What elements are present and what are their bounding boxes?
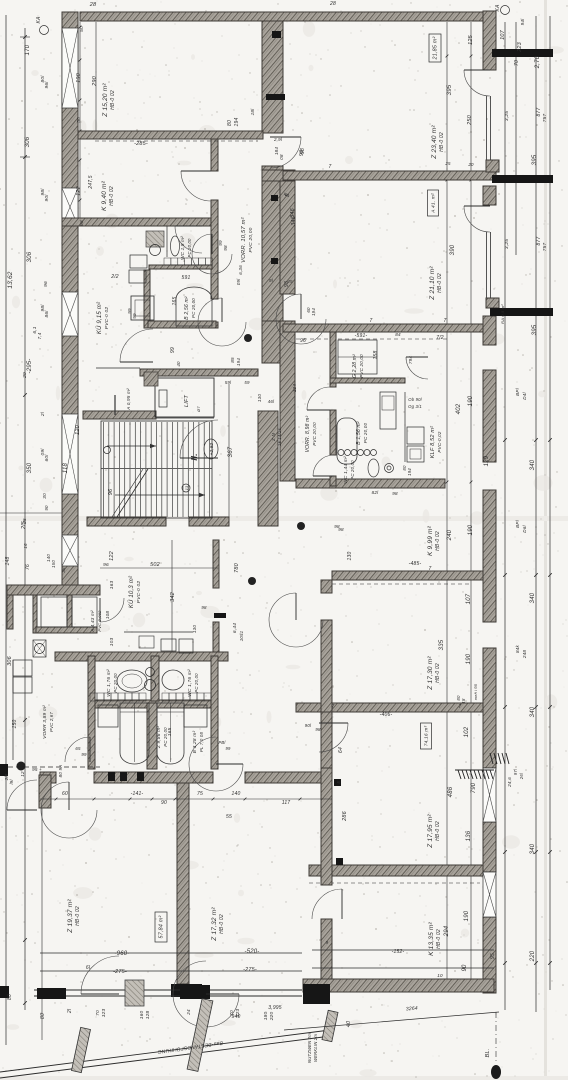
svg-text:340: 340 <box>530 459 536 470</box>
svg-text:165: 165 <box>172 297 178 306</box>
svg-text:190: 190 <box>76 72 82 83</box>
svg-text:395: 395 <box>447 84 453 95</box>
svg-text:306: 306 <box>27 251 33 262</box>
svg-text:70: 70 <box>514 60 520 66</box>
svg-text:PVC-0 02: PVC-0 02 <box>104 307 110 330</box>
svg-text:-591-: -591- <box>355 333 368 339</box>
svg-text:+2,82: +2,82 <box>209 442 214 455</box>
svg-text:K 9,40 m²: K 9,40 m² <box>101 180 108 211</box>
svg-text:99: 99 <box>127 308 132 314</box>
svg-text:HB-0 02: HB-0 02 <box>75 906 81 926</box>
svg-text:95 +: 95 + <box>32 767 42 772</box>
svg-text:123: 123 <box>101 1009 107 1018</box>
svg-text:108: 108 <box>105 611 110 620</box>
svg-text:190: 190 <box>464 910 470 921</box>
svg-text:KLF 8,52 m²: KLF 8,52 m² <box>430 426 436 458</box>
svg-text:PVC-0 02: PVC-0 02 <box>136 581 142 604</box>
svg-text:HB-0 02: HB-0 02 <box>436 929 442 949</box>
svg-text:184: 184 <box>274 147 279 155</box>
svg-text:9: 9 <box>326 940 329 945</box>
svg-text:76: 76 <box>25 564 31 570</box>
svg-text:90l: 90l <box>44 194 50 202</box>
svg-text:486: 486 <box>448 786 454 797</box>
svg-text:13: 13 <box>184 485 189 490</box>
svg-text:163: 163 <box>109 581 115 590</box>
svg-text:194: 194 <box>407 468 412 476</box>
svg-text:Z 19,37 m²: Z 19,37 m² <box>67 899 74 934</box>
svg-text:877: 877 <box>536 237 542 246</box>
svg-text:98l: 98l <box>40 304 46 312</box>
svg-text:PVC 20,00: PVC 20,00 <box>312 422 317 446</box>
svg-text:16: 16 <box>23 543 28 549</box>
svg-text:340: 340 <box>530 706 536 717</box>
svg-text:98: 98 <box>223 245 228 251</box>
svg-text:PVC 20,00: PVC 20,00 <box>248 227 254 252</box>
svg-text:29: 29 <box>22 372 28 379</box>
svg-text:250: 250 <box>467 114 473 126</box>
svg-text:99: 99 <box>81 752 87 757</box>
svg-text:346: 346 <box>290 207 296 218</box>
svg-text:7: 7 <box>370 318 373 324</box>
svg-text:248: 248 <box>522 650 527 660</box>
svg-text:64: 64 <box>338 747 344 753</box>
svg-text:3,25: 3,25 <box>504 239 510 249</box>
svg-text:3,995: 3,995 <box>268 1005 282 1011</box>
svg-text:90: 90 <box>44 505 49 511</box>
svg-text:D6l: D6l <box>522 524 527 532</box>
svg-text:WC 1,5 m²: WC 1,5 m² <box>180 236 185 260</box>
svg-text:84: 84 <box>395 332 401 337</box>
svg-text:402: 402 <box>456 403 462 414</box>
svg-text:PC 20,00: PC 20,00 <box>113 673 118 693</box>
svg-text:55: 55 <box>226 814 232 820</box>
svg-text:-275-: -275- <box>243 967 257 973</box>
svg-text:Z 21,10 m²: Z 21,10 m² <box>429 266 436 301</box>
svg-text:130: 130 <box>257 394 262 403</box>
svg-text:2l5: 2l5 <box>21 520 27 530</box>
svg-text:790: 790 <box>471 782 477 793</box>
svg-text:294: 294 <box>444 925 450 937</box>
svg-text:220: 220 <box>530 950 536 962</box>
svg-text:KA: KA <box>495 4 501 12</box>
svg-text:82l: 82l <box>372 490 380 495</box>
svg-text:85: 85 <box>230 357 235 363</box>
svg-text:3264: 3264 <box>406 1005 418 1012</box>
svg-text:10: 10 <box>437 973 443 978</box>
svg-text:7/2: 7/2 <box>436 335 444 341</box>
svg-text:18: 18 <box>461 698 466 704</box>
svg-text:125: 125 <box>468 34 474 45</box>
svg-text:158: 158 <box>373 351 379 360</box>
svg-text:2,9l: 2,9l <box>273 137 283 142</box>
svg-text:340: 340 <box>530 592 536 603</box>
svg-text:28: 28 <box>329 1 336 7</box>
svg-text:794: 794 <box>408 356 413 365</box>
svg-text:90: 90 <box>161 800 167 806</box>
svg-text:KÜ 10,3 m²: KÜ 10,3 m² <box>128 575 135 608</box>
svg-text:220: 220 <box>269 1012 275 1022</box>
svg-text:Z 17,32 m²: Z 17,32 m² <box>211 907 218 942</box>
svg-text:190: 190 <box>466 653 472 664</box>
svg-text:-275-: -275- <box>113 969 127 975</box>
svg-text:140: 140 <box>232 791 241 797</box>
svg-text:502: 502 <box>150 562 160 568</box>
svg-text:PC 20,00: PC 20,00 <box>194 673 199 693</box>
svg-text:2,70: 2,70 <box>535 55 541 69</box>
svg-text:6,36: 6,36 <box>238 265 243 275</box>
svg-text:-520-: -520- <box>244 949 259 955</box>
svg-text:80: 80 <box>7 994 13 1000</box>
svg-text:290: 290 <box>92 75 98 87</box>
svg-text:A 41. m²: A 41. m² <box>431 193 437 214</box>
svg-text:KA: KA <box>36 16 42 24</box>
svg-text:80: 80 <box>227 120 233 126</box>
svg-text:2l: 2l <box>40 411 46 417</box>
svg-text:99: 99 <box>170 347 176 353</box>
svg-text:6,1: 6,1 <box>32 326 38 333</box>
svg-text:96: 96 <box>300 338 306 344</box>
svg-text:180: 180 <box>263 1012 269 1021</box>
svg-text:96l: 96l <box>44 81 50 89</box>
svg-text:6l: 6l <box>86 965 91 971</box>
svg-text:46l: 46l <box>268 399 275 404</box>
svg-text:130: 130 <box>347 552 353 561</box>
svg-text:247,5: 247,5 <box>88 175 94 190</box>
svg-text:PBl: PBl <box>218 740 226 745</box>
svg-text:B 2,56 m²: B 2,56 m² <box>184 296 190 320</box>
svg-text:08: 08 <box>279 154 284 160</box>
svg-text:13,62: 13,62 <box>7 271 14 288</box>
svg-text:RA 0,5 m²: RA 0,5 m² <box>500 304 505 324</box>
svg-text:165: 165 <box>167 728 173 737</box>
svg-text:74,16 m³: 74,16 m³ <box>424 726 430 747</box>
svg-text:118: 118 <box>63 462 69 473</box>
svg-text:K 13,35 m²: K 13,35 m² <box>428 921 435 955</box>
svg-text:50: 50 <box>76 117 82 123</box>
svg-text:99: 99 <box>132 313 137 319</box>
svg-text:PVC-0,02: PVC-0,02 <box>437 431 442 452</box>
svg-text:80l: 80l <box>40 75 46 83</box>
svg-text:24,6: 24,6 <box>507 777 512 788</box>
svg-text:342: 342 <box>170 592 176 602</box>
svg-text:2/2: 2/2 <box>110 274 119 280</box>
svg-text:306: 306 <box>25 136 31 147</box>
svg-text:WC 1,76 m²: WC 1,76 m² <box>187 669 193 697</box>
svg-text:Og 3/1: Og 3/1 <box>408 404 422 409</box>
svg-text:50: 50 <box>79 26 85 32</box>
svg-text:340: 340 <box>530 843 536 854</box>
svg-text:7: 7 <box>329 164 332 170</box>
svg-text:l9l: l9l <box>9 779 14 785</box>
svg-text:VORR 3,89 m²: VORR 3,89 m² <box>42 705 48 739</box>
svg-text:59l: 59l <box>225 380 232 385</box>
svg-text:WC 1,76 m²: WC 1,76 m² <box>106 669 112 697</box>
svg-text:170: 170 <box>25 44 31 55</box>
svg-text:HB-0 02: HB-0 02 <box>219 914 225 934</box>
svg-text:12: 12 <box>20 771 25 777</box>
svg-text:BPl: BPl <box>515 519 520 528</box>
svg-text:190: 190 <box>468 524 474 535</box>
svg-text:6,44: 6,44 <box>232 623 238 633</box>
svg-text:98: 98 <box>392 491 398 496</box>
svg-text:18l: 18l <box>250 108 255 116</box>
svg-text:94l: 94l <box>520 18 525 26</box>
svg-text:395: 395 <box>532 324 538 335</box>
svg-text:HB-0 02: HB-0 02 <box>109 186 115 206</box>
svg-text:350: 350 <box>27 462 33 473</box>
svg-text:60l: 60l <box>44 454 50 462</box>
svg-text:150: 150 <box>51 560 56 568</box>
svg-text:335: 335 <box>439 639 445 650</box>
svg-text:28: 28 <box>89 2 97 8</box>
svg-text:877: 877 <box>536 108 542 117</box>
svg-text:97l: 97l <box>513 768 518 775</box>
svg-text:-141-: -141- <box>131 791 144 797</box>
svg-text:-152-: -152- <box>392 949 405 955</box>
svg-text:PC 20,00: PC 20,00 <box>363 423 368 444</box>
svg-text:7: 7 <box>459 704 462 710</box>
svg-text:-295-: -295- <box>27 358 33 373</box>
svg-text:148: 148 <box>5 557 11 566</box>
svg-text:Ø7: Ø7 <box>196 406 201 413</box>
svg-text:7: 7 <box>429 566 432 572</box>
svg-text:09l: 09l <box>236 278 241 285</box>
svg-text:HB-0 02: HB-0 02 <box>435 663 441 683</box>
svg-text:98: 98 <box>299 150 305 156</box>
svg-text:40: 40 <box>176 361 181 367</box>
svg-text:150: 150 <box>12 720 18 729</box>
svg-text:NUTZWEN 2m: NUTZWEN 2m <box>307 1033 312 1063</box>
svg-text:102: 102 <box>464 726 470 737</box>
svg-text:98l: 98l <box>40 188 46 196</box>
svg-text:16 14/16: 16 14/16 <box>277 428 282 446</box>
svg-text:II.: II. <box>190 453 199 460</box>
svg-text:PL 7,0 08: PL 7,0 08 <box>199 732 204 753</box>
svg-text:-485-: -485- <box>409 561 422 567</box>
svg-text:367: 367 <box>228 446 234 457</box>
svg-text:98: 98 <box>79 220 85 226</box>
svg-text:24: 24 <box>186 1009 191 1016</box>
svg-text:HB-0 02: HB-0 02 <box>437 273 443 293</box>
svg-text:KÜ 9,15 m²: KÜ 9,15 m² <box>96 301 103 334</box>
svg-text:Z 15,20 m²: Z 15,20 m² <box>102 83 109 118</box>
svg-text:96: 96 <box>103 562 109 568</box>
svg-text:107: 107 <box>500 29 506 40</box>
svg-text:780: 780 <box>234 562 240 573</box>
svg-text:K 9,99 m²: K 9,99 m² <box>427 525 434 556</box>
svg-text:124: 124 <box>292 384 297 393</box>
svg-text:Ob 90l: Ob 90l <box>408 397 422 402</box>
svg-text:Z N: Z N <box>271 433 276 442</box>
svg-text:VORR. 10,57 m²: VORR. 10,57 m² <box>241 216 247 263</box>
svg-text:21,85 m²: 21,85 m² <box>433 37 439 61</box>
svg-text:99: 99 <box>218 240 223 246</box>
svg-text:-406-: -406- <box>380 712 393 718</box>
svg-text:86l: 86l <box>44 310 50 318</box>
svg-text:90: 90 <box>462 964 468 972</box>
svg-text:1051: 1051 <box>239 630 244 641</box>
svg-text:B 1,56 m²: B 1,56 m² <box>356 421 362 445</box>
svg-text:395: 395 <box>532 154 538 165</box>
svg-text:2l: 2l <box>67 1008 73 1014</box>
svg-text:PC 20,00: PC 20,00 <box>187 238 192 258</box>
svg-text:123: 123 <box>235 1009 241 1018</box>
svg-text:75: 75 <box>197 791 203 797</box>
svg-text:Z 17,95 m²: Z 17,95 m² <box>427 814 434 849</box>
svg-text:G 2,28 m²: G 2,28 m² <box>352 354 358 378</box>
svg-text:757: 757 <box>542 114 548 123</box>
svg-text:PC 20,00: PC 20,00 <box>191 298 196 318</box>
svg-text:7,4: 7,4 <box>37 332 42 339</box>
svg-text:194: 194 <box>234 118 240 127</box>
svg-text:Z 23,40 m²: Z 23,40 m² <box>431 125 438 160</box>
svg-text:122: 122 <box>109 551 115 561</box>
svg-text:98: 98 <box>334 524 340 529</box>
svg-text:Z 17,30 m²: Z 17,30 m² <box>427 656 434 691</box>
svg-text:HB-0 02: HB-0 02 <box>439 132 445 152</box>
svg-text:HB-0 02: HB-0 02 <box>110 90 116 110</box>
svg-text:59: 59 <box>244 380 250 385</box>
svg-text:BL.: BL. <box>485 1049 491 1058</box>
svg-text:757: 757 <box>542 243 548 252</box>
svg-text:25: 25 <box>444 161 451 166</box>
svg-text:103: 103 <box>109 638 115 647</box>
svg-text:117: 117 <box>282 800 291 806</box>
svg-text:591: 591 <box>182 275 191 281</box>
svg-text:-285-: -285- <box>134 141 148 147</box>
svg-text:98: 98 <box>315 727 321 732</box>
svg-text:20: 20 <box>467 162 474 167</box>
svg-text:160: 160 <box>139 1011 145 1020</box>
svg-text:390: 390 <box>450 244 456 255</box>
svg-text:120: 120 <box>75 424 81 435</box>
svg-text:30: 30 <box>42 493 48 499</box>
svg-text:7: 7 <box>332 704 335 710</box>
svg-text:VORR. 8,98 m²: VORR. 8,98 m² <box>305 415 311 452</box>
svg-text:57,84 m²: 57,84 m² <box>159 916 165 939</box>
svg-text:80 9A: 80 9A <box>58 765 63 778</box>
svg-text:A 0,95 m²: A 0,95 m² <box>126 388 131 411</box>
svg-text:HB-0 02: HB-0 02 <box>435 531 441 551</box>
svg-text:LIFT: LIFT <box>184 395 190 408</box>
svg-text:Z 9,86 m²: Z 9,86 m² <box>156 726 162 750</box>
svg-text:70: 70 <box>229 1010 235 1016</box>
svg-text:98: 98 <box>284 281 290 287</box>
svg-text:107: 107 <box>466 593 472 604</box>
svg-text:223: 223 <box>517 41 523 53</box>
svg-text:96: 96 <box>108 488 114 495</box>
svg-text:194: 194 <box>311 308 316 316</box>
svg-text:meh l 05: meh l 05 <box>474 683 478 700</box>
svg-text:128: 128 <box>145 1011 151 1020</box>
svg-text:286: 286 <box>342 810 348 822</box>
svg-text:36: 36 <box>61 567 66 573</box>
svg-text:PVC 20,00: PVC 20,00 <box>359 354 364 378</box>
svg-text:7: 7 <box>444 318 447 324</box>
svg-text:D4l: D4l <box>522 391 527 399</box>
svg-text:HB-0 02: HB-0 02 <box>435 821 441 841</box>
svg-text:129: 129 <box>484 455 490 466</box>
svg-text:80: 80 <box>40 1013 46 1019</box>
svg-text:PVC 2,67: PVC 2,67 <box>49 712 54 732</box>
svg-text:84k: 84k <box>515 644 520 653</box>
svg-text:99: 99 <box>225 746 231 751</box>
svg-text:95: 95 <box>490 953 496 959</box>
svg-text:136: 136 <box>466 830 472 841</box>
svg-text:306: 306 <box>7 655 13 666</box>
svg-text:B 3,28 m²: B 3,28 m² <box>192 731 198 754</box>
svg-text:98: 98 <box>201 605 207 610</box>
svg-text:WC 1,44 m²: WC 1,44 m² <box>343 456 349 484</box>
svg-text:130: 130 <box>192 625 197 634</box>
svg-text:PC 20,00: PC 20,00 <box>350 460 355 480</box>
svg-text:240: 240 <box>447 529 453 541</box>
svg-text:65: 65 <box>75 746 81 751</box>
svg-text:3,25: 3,25 <box>504 111 510 121</box>
svg-text:WERKLIN 2m: WERKLIN 2m <box>313 1034 318 1062</box>
svg-text:190: 190 <box>468 395 474 406</box>
svg-text:40: 40 <box>346 1020 352 1027</box>
svg-text:122: 122 <box>76 186 82 196</box>
svg-text:60: 60 <box>62 791 68 797</box>
svg-text:90l: 90l <box>305 723 312 728</box>
svg-text:PVC 2,002: PVC 2,002 <box>97 610 102 632</box>
svg-text:09l: 09l <box>40 448 46 456</box>
svg-text:70: 70 <box>95 1010 101 1016</box>
svg-text:26l: 26l <box>519 772 524 780</box>
svg-text:A 4,43 m²: A 4,43 m² <box>90 610 95 633</box>
svg-text:BPl: BPl <box>515 387 520 396</box>
svg-text:194: 194 <box>236 358 241 366</box>
svg-text:96: 96 <box>43 281 49 287</box>
